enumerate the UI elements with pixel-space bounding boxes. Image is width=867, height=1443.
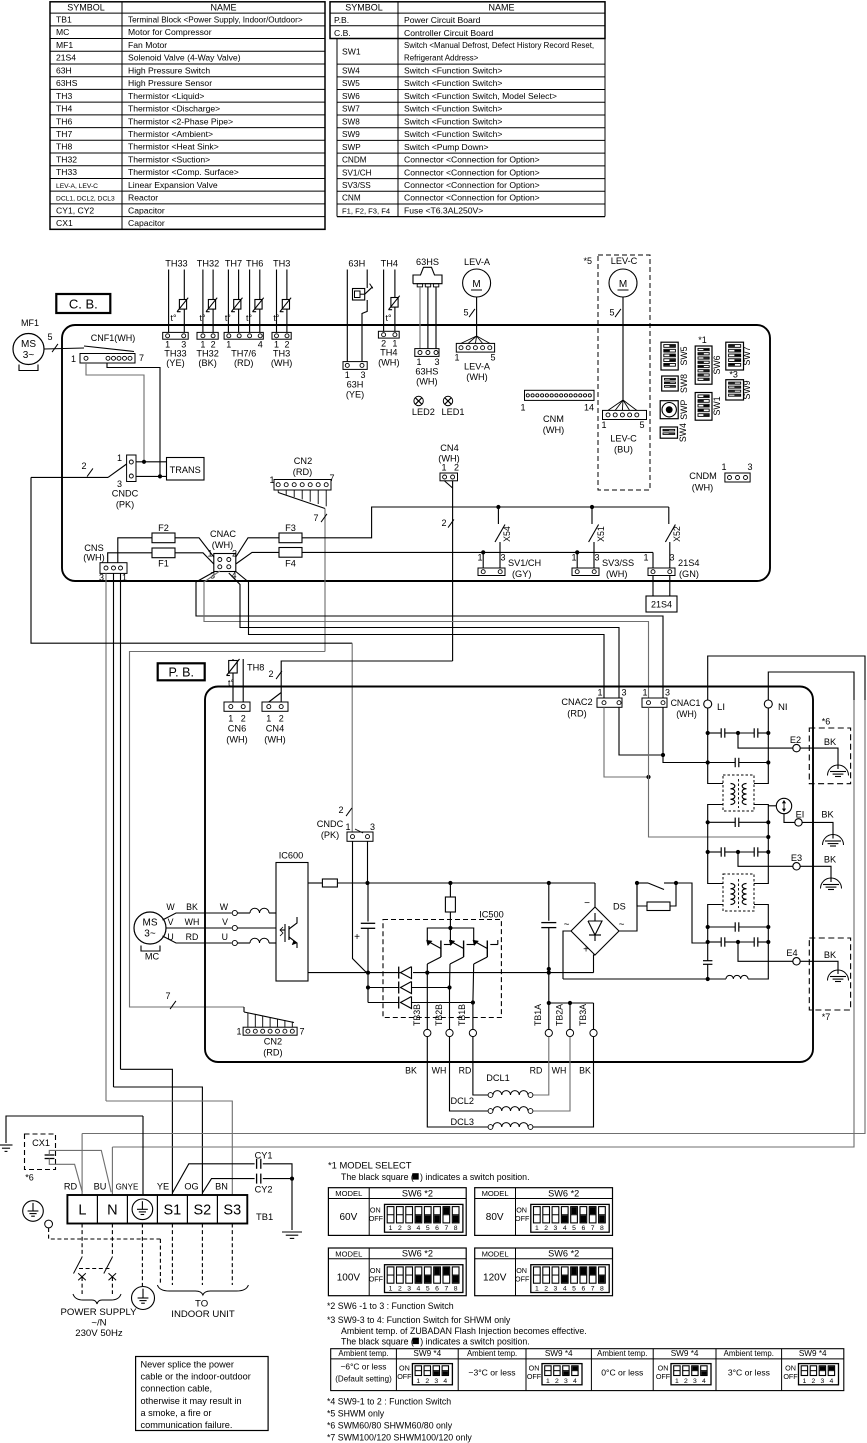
wire EI	[784, 814, 795, 823]
svg-text:Power Circuit Board: Power Circuit Board	[404, 15, 481, 25]
svg-text:3: 3	[554, 1286, 558, 1293]
svg-text:2: 2	[555, 1378, 559, 1385]
IGBT collector bus	[427, 928, 473, 941]
svg-text:Thermistor <Liquid>: Thermistor <Liquid>	[128, 91, 204, 101]
warning note box	[136, 1357, 269, 1431]
IGBT Q1	[427, 941, 441, 949]
E4 ground lead	[800, 961, 838, 974]
thermistor TH8	[232, 659, 234, 702]
svg-text:Ambient temp.: Ambient temp.	[597, 1349, 647, 1358]
model table 120V	[475, 1248, 613, 1296]
svg-text:(BU): (BU)	[614, 445, 633, 455]
svg-text:1: 1	[389, 1225, 393, 1232]
svg-text:(RD): (RD)	[567, 709, 586, 719]
wire F3 to relay rail	[302, 507, 669, 538]
relay contact X54	[497, 507, 499, 524]
N rail from TB1	[768, 672, 854, 700]
svg-text:F2: F2	[158, 523, 169, 533]
svg-text:DS: DS	[613, 902, 626, 912]
svg-text:Thermistor <Heat Sink>: Thermistor <Heat Sink>	[128, 142, 219, 152]
capacitor CX1	[45, 1154, 55, 1156]
svg-text:1: 1	[71, 354, 76, 364]
solenoid valve 21S4	[652, 576, 654, 597]
LED1	[443, 396, 452, 405]
svg-text:GNYE: GNYE	[116, 1183, 139, 1192]
svg-text:F3: F3	[285, 523, 296, 533]
svg-text:3°C or less: 3°C or less	[728, 1368, 770, 1378]
DC rail top	[308, 882, 322, 884]
brace power supply	[73, 1294, 121, 1304]
DIP switch SW4	[660, 427, 677, 438]
svg-text:Switch <Function Switch>: Switch <Function Switch>	[404, 66, 502, 76]
svg-text:1: 1	[643, 553, 648, 563]
svg-text:1: 1	[389, 1286, 393, 1293]
terminal NI	[764, 700, 772, 708]
wire CNAC1 pin3 to LI net	[663, 707, 708, 762]
svg-text:5: 5	[490, 353, 495, 363]
svg-text:X54: X54	[502, 526, 512, 542]
resistor parallel to relay	[637, 883, 647, 906]
svg-text:Ambient temp. of ZUBADAN Flash: Ambient temp. of ZUBADAN Flash Injection…	[341, 1326, 587, 1336]
cap row5	[708, 926, 736, 928]
svg-text:SW8: SW8	[679, 374, 689, 393]
svg-text:TH4: TH4	[381, 259, 398, 269]
svg-text:3: 3	[693, 1378, 697, 1385]
svg-text:OFF: OFF	[527, 1372, 542, 1381]
svg-text:TRANS: TRANS	[170, 465, 201, 475]
wire relay to E4 row	[676, 883, 708, 943]
svg-text:W: W	[220, 902, 229, 912]
wire CNDC pin1 to lower rail	[353, 841, 367, 972]
svg-text:SW7: SW7	[342, 105, 360, 114]
svg-text:CNAC: CNAC	[210, 529, 236, 539]
terminal E3	[793, 863, 800, 870]
svg-text:CN4: CN4	[266, 724, 284, 734]
wire LI row1-row2	[707, 733, 709, 763]
svg-text:−6°C or less: −6°C or less	[341, 1362, 387, 1372]
svg-text:4: 4	[830, 1378, 834, 1385]
svg-text:F4: F4	[285, 559, 296, 569]
connector LEV-C(BU)	[608, 400, 623, 410]
diode D2	[368, 987, 399, 989]
svg-text:*7: *7	[822, 1012, 831, 1022]
cap row6 right	[738, 941, 754, 943]
svg-text:(WH): (WH)	[692, 483, 713, 493]
svg-text:BK: BK	[824, 855, 837, 865]
svg-text:*3 SW9-3 to 4: Function Switc: *3 SW9-3 to 4: Function Switch for SHWM …	[327, 1315, 511, 1325]
brace to indoor unit	[157, 1285, 248, 1295]
svg-text:TH3: TH3	[273, 349, 290, 359]
svg-text:2: 2	[544, 1225, 548, 1232]
wire DS ac left	[563, 931, 571, 979]
svg-text:3: 3	[434, 1378, 438, 1385]
wire CN4 down (2 cond.)	[452, 481, 454, 661]
svg-text:SW4: SW4	[342, 67, 360, 76]
lower rail	[308, 972, 400, 974]
connector SV1/CH(GY)	[478, 568, 505, 576]
svg-text:cable or the indoor-outdoor: cable or the indoor-outdoor	[141, 1372, 251, 1382]
svg-text:t°: t°	[273, 313, 279, 323]
svg-text:1: 1	[721, 462, 726, 472]
wire DS dc plus	[594, 955, 596, 973]
svg-text:Connector <Connection for Opti: Connector <Connection for Option>	[404, 193, 540, 203]
svg-text:(RD): (RD)	[234, 358, 253, 368]
svg-text:3: 3	[117, 479, 122, 489]
svg-text:OFF: OFF	[369, 1214, 384, 1223]
svg-text:~: ~	[619, 920, 625, 931]
svg-text:2: 2	[441, 518, 446, 528]
svg-text:(WH): (WH)	[212, 540, 233, 550]
svg-text:S3: S3	[223, 1203, 241, 1219]
svg-text:60V: 60V	[340, 1212, 358, 1223]
wire CX1 to N	[49, 1150, 111, 1192]
tap to E2	[738, 733, 793, 748]
svg-text:4: 4	[417, 1286, 421, 1293]
wire CNAC pin3 to CNAC1 pin3	[196, 572, 663, 699]
svg-text:OG: OG	[184, 1182, 198, 1192]
svg-text:2: 2	[338, 805, 343, 815]
filter capacitor at bridge	[548, 883, 550, 921]
svg-text:CNM: CNM	[543, 414, 564, 424]
connector 21S4(GN)	[648, 568, 675, 576]
svg-text:E4: E4	[786, 948, 797, 958]
cap row2	[708, 762, 736, 764]
svg-text:TH33: TH33	[164, 349, 186, 359]
svg-text:LED2: LED2	[412, 407, 435, 417]
svg-text:a smoke, a fire or: a smoke, a fire or	[141, 1408, 212, 1418]
svg-text:CX1: CX1	[56, 218, 73, 228]
svg-text:2: 2	[398, 1225, 402, 1232]
svg-text:(WH): (WH)	[466, 372, 487, 382]
svg-text:Thermistor <Ambient>: Thermistor <Ambient>	[128, 129, 213, 139]
svg-text:4: 4	[258, 340, 263, 350]
wire CNAC1 pin1 to NI net	[649, 707, 769, 837]
wire CNS to F1 F2	[108, 553, 152, 563]
svg-text:SYMBOL: SYMBOL	[345, 2, 383, 12]
svg-text:The black square (: The black square (	[341, 1172, 414, 1182]
svg-text:5: 5	[639, 420, 644, 430]
svg-text:3: 3	[434, 357, 439, 367]
svg-text:Ambient temp.: Ambient temp.	[338, 1349, 388, 1358]
smoothing capacitor	[367, 883, 369, 922]
svg-text:3: 3	[747, 462, 752, 472]
svg-text:CN4: CN4	[440, 443, 458, 453]
svg-text:CN2: CN2	[264, 1037, 282, 1047]
wire TB1A from DCL1	[533, 1037, 549, 1095]
svg-text:1: 1	[441, 463, 446, 473]
DIP switch SW7	[726, 342, 744, 370]
connector CNM(WH)	[525, 390, 595, 400]
wire LI vertical	[707, 708, 709, 733]
svg-text:High Pressure Switch: High Pressure Switch	[128, 65, 210, 75]
svg-text:2: 2	[398, 1286, 402, 1293]
svg-text:High Pressure Sensor: High Pressure Sensor	[128, 78, 212, 88]
connector TH4(WH)	[378, 331, 399, 338]
connector 63HS(WH)	[415, 349, 439, 357]
resistor on DC rail	[322, 879, 337, 887]
svg-text:IC600: IC600	[279, 851, 304, 861]
svg-text:X52: X52	[672, 526, 682, 542]
svg-text:DCL3: DCL3	[451, 1117, 475, 1127]
svg-text:7: 7	[165, 991, 170, 1001]
svg-text:3: 3	[621, 688, 626, 698]
svg-text:7: 7	[591, 1225, 595, 1232]
svg-text:F1: F1	[158, 559, 169, 569]
svg-text:SV3/SS: SV3/SS	[342, 181, 371, 190]
svg-text:8: 8	[600, 1286, 604, 1293]
svg-text:3: 3	[665, 688, 670, 698]
svg-text:2: 2	[268, 669, 273, 679]
cap row1 left	[708, 732, 722, 734]
svg-text:MODEL: MODEL	[482, 1189, 509, 1198]
wire MF1 to CNF1	[44, 348, 84, 349]
connector CN6(WH) on P.B.	[224, 702, 250, 711]
symbol table (right)	[330, 2, 605, 39]
C.B. label	[56, 294, 110, 313]
earth circle below	[132, 1287, 155, 1310]
cap row4 left	[708, 851, 722, 853]
svg-text:Reactor: Reactor	[128, 193, 158, 203]
svg-text:connection cable,: connection cable,	[141, 1384, 213, 1394]
svg-text:E3: E3	[791, 853, 802, 863]
connector LEV-A(WH)	[461, 336, 477, 343]
svg-text:7: 7	[313, 513, 318, 523]
svg-text:4: 4	[417, 1225, 421, 1232]
svg-text:*5: *5	[583, 256, 592, 266]
svg-text:BK: BK	[824, 737, 837, 747]
svg-text:C.B.: C.B.	[334, 28, 351, 38]
svg-text:(YE): (YE)	[166, 358, 184, 368]
svg-text:BK: BK	[821, 810, 834, 820]
svg-text:CNM: CNM	[342, 194, 361, 203]
svg-text:P.B.: P.B.	[334, 15, 349, 25]
wire CNF1 pin2 to TRANS	[107, 363, 160, 476]
svg-text:2: 2	[425, 1378, 429, 1385]
svg-text:MS: MS	[21, 339, 36, 350]
svg-text:3: 3	[370, 822, 375, 832]
svg-text:6: 6	[581, 1286, 585, 1293]
capacitor CX1 dashed box *6	[25, 1134, 56, 1170]
svg-text:LED1: LED1	[442, 407, 465, 417]
EI earth	[823, 835, 844, 846]
svg-text:Switch <Pump Down>: Switch <Pump Down>	[404, 142, 489, 152]
svg-text:*6 SWM60/80 SHWM60/80 only: *6 SWM60/80 SHWM60/80 only	[327, 1421, 453, 1431]
diode bridge DS	[594, 883, 596, 907]
svg-text:1: 1	[642, 688, 647, 698]
svg-text:1: 1	[236, 1027, 241, 1037]
wire CNAC pin1 to CNAC1 pin1	[204, 571, 649, 698]
connector SV3/SS(WH)	[572, 568, 599, 576]
svg-text:(Default setting): (Default setting)	[335, 1375, 392, 1384]
model table 60V	[328, 1188, 466, 1236]
svg-text:+: +	[354, 932, 360, 943]
svg-text:80V: 80V	[486, 1212, 504, 1223]
wire TB1B to DCL1	[473, 1037, 488, 1095]
svg-text:RD: RD	[530, 1066, 543, 1076]
relay contact on P.B.	[648, 883, 664, 890]
wire TB3B to DCL3	[427, 1037, 488, 1127]
svg-text:2: 2	[241, 714, 246, 724]
wire CNS to S-terminals	[120, 573, 122, 1069]
svg-text:7: 7	[444, 1286, 448, 1293]
svg-text:SW6 *2: SW6 *2	[402, 1249, 433, 1259]
svg-text:TB3B: TB3B	[412, 1004, 422, 1026]
svg-text:OFF: OFF	[369, 1275, 384, 1284]
svg-text:SW6: SW6	[712, 355, 722, 374]
svg-text:S2: S2	[194, 1203, 212, 1219]
svg-text:−3°C or less: −3°C or less	[468, 1368, 515, 1378]
svg-text:V: V	[168, 917, 174, 927]
svg-text:3: 3	[360, 370, 365, 380]
svg-text:BK: BK	[824, 950, 837, 960]
svg-text:1: 1	[477, 553, 482, 563]
LEV-C dashed enclosure *5	[598, 255, 650, 490]
svg-text:1: 1	[535, 1225, 539, 1232]
svg-text:) indicates a switch position.: ) indicates a switch position.	[420, 1172, 530, 1182]
svg-text:*6: *6	[822, 717, 831, 727]
wire CNDC to left (2 cond.)	[31, 476, 108, 478]
svg-text:2: 2	[279, 714, 284, 724]
svg-text:BU: BU	[94, 1182, 107, 1192]
svg-text:Connector <Connection for Opti: Connector <Connection for Option>	[404, 155, 540, 165]
svg-text:Thermistor <Discharge>: Thermistor <Discharge>	[128, 104, 220, 114]
svg-text:1: 1	[117, 453, 122, 463]
svg-text:Fuse <T6.3AL250V>: Fuse <T6.3AL250V>	[404, 205, 483, 215]
relay contact X51	[591, 507, 593, 524]
svg-text:TH7: TH7	[56, 129, 72, 139]
svg-text:SW6: SW6	[342, 92, 360, 101]
resistor above IC500	[449, 883, 451, 897]
svg-text:TB2B: TB2B	[434, 1004, 444, 1026]
svg-text:MC: MC	[56, 27, 69, 37]
svg-text:(YE): (YE)	[346, 390, 364, 400]
svg-text:Connector <Connection for Opti: Connector <Connection for Option>	[404, 167, 540, 177]
dashed box *7	[809, 938, 850, 1010]
earth far-left	[6, 1116, 143, 1143]
svg-text:1: 1	[228, 714, 233, 724]
svg-text:7: 7	[329, 473, 334, 483]
svg-text:3: 3	[554, 1225, 558, 1232]
svg-text:Switch <Manual Defrost, Defect: Switch <Manual Defrost, Defect History R…	[404, 41, 594, 50]
earth terminal in TB1	[132, 1199, 153, 1220]
choke L2	[723, 874, 754, 911]
connector TH33(YE)	[163, 332, 189, 339]
svg-text:TB1B: TB1B	[457, 1004, 467, 1026]
svg-text:TH6: TH6	[56, 116, 72, 126]
svg-text:TH8: TH8	[56, 142, 72, 152]
svg-text:(RD): (RD)	[293, 467, 312, 477]
connector TH7/6(RD)	[224, 332, 263, 339]
svg-text:2: 2	[812, 1378, 816, 1385]
svg-text:(WH): (WH)	[83, 553, 104, 563]
svg-text:63H: 63H	[348, 259, 365, 269]
svg-text:(WH): (WH)	[226, 735, 247, 745]
svg-text:(GN): (GN)	[679, 569, 699, 579]
svg-text:RD: RD	[186, 932, 199, 942]
svg-text:120V: 120V	[483, 1273, 507, 1284]
svg-text:−: −	[584, 898, 590, 909]
wire CNAC2 pin1 join	[604, 707, 649, 777]
DIP switch SW1	[695, 393, 712, 421]
svg-text:LEV-A: LEV-A	[464, 257, 491, 267]
svg-text:Never splice the power: Never splice the power	[141, 1360, 234, 1370]
svg-text:TH8: TH8	[247, 663, 264, 673]
svg-text:V: V	[222, 917, 228, 927]
svg-text:8: 8	[600, 1225, 604, 1232]
wire TB3A from DCL3	[533, 1037, 594, 1127]
svg-text:Switch <Function Switch>: Switch <Function Switch>	[404, 116, 502, 126]
svg-text:63HS: 63HS	[415, 367, 438, 377]
svg-text:5: 5	[609, 308, 614, 318]
svg-text:1: 1	[122, 573, 127, 583]
svg-text:CNF1(WH): CNF1(WH)	[91, 333, 136, 343]
svg-text:1: 1	[266, 714, 271, 724]
svg-text:*1 MODEL SELECT: *1 MODEL SELECT	[328, 1160, 412, 1171]
wire CN2 bundle	[278, 493, 325, 509]
svg-text:21S4: 21S4	[651, 600, 672, 610]
svg-text:BK: BK	[579, 1066, 591, 1076]
svg-text:NI: NI	[778, 702, 788, 713]
fuse F1	[152, 548, 175, 558]
svg-text:4: 4	[563, 1286, 567, 1293]
svg-text:(WH): (WH)	[264, 735, 285, 745]
svg-text:SYMBOL: SYMBOL	[67, 2, 105, 12]
compressor motor MC	[134, 912, 166, 944]
connector TH3(WH)	[272, 332, 291, 339]
svg-text:TH6: TH6	[246, 259, 263, 269]
svg-text:(WH): (WH)	[543, 425, 564, 435]
svg-text:3: 3	[500, 553, 505, 563]
svg-text:3~: 3~	[144, 929, 156, 940]
svg-text:SW6 *2: SW6 *2	[402, 1188, 433, 1198]
svg-text:TO: TO	[195, 1299, 208, 1310]
svg-text:t°: t°	[228, 678, 234, 688]
svg-text:Capacitor: Capacitor	[128, 218, 165, 228]
svg-text:TH3: TH3	[273, 259, 290, 269]
P.B. label	[158, 663, 205, 680]
protective earth symbol left of TB1	[23, 1201, 44, 1222]
wire DS ac right to relay	[619, 883, 637, 931]
svg-text:SWP: SWP	[679, 400, 689, 420]
svg-text:3~: 3~	[23, 350, 35, 361]
E3 ground lead	[800, 866, 831, 882]
svg-text:POWER SUPPLY: POWER SUPPLY	[60, 1307, 137, 1318]
E3 earth	[821, 878, 842, 889]
svg-text:14: 14	[584, 403, 594, 413]
svg-text:W: W	[166, 902, 175, 912]
svg-text:2: 2	[454, 463, 459, 473]
svg-text:CN6: CN6	[228, 724, 246, 734]
svg-text:Solenoid Valve (4-Way Valve): Solenoid Valve (4-Way Valve)	[128, 53, 241, 63]
svg-text:1: 1	[345, 822, 350, 832]
symbol table (left)	[50, 2, 325, 230]
svg-text:1: 1	[454, 353, 459, 363]
svg-text:U: U	[222, 932, 228, 942]
svg-text:Ambient temp.: Ambient temp.	[724, 1349, 774, 1358]
dashed drops from terminals	[81, 1224, 83, 1258]
svg-text:Refrigerant Address>: Refrigerant Address>	[404, 54, 479, 63]
wire L to rail	[81, 1134, 83, 1196]
breaker N	[104, 1257, 113, 1274]
svg-text:(PK): (PK)	[116, 500, 134, 510]
svg-text:OFF: OFF	[515, 1214, 530, 1223]
svg-text:SV1/CH: SV1/CH	[508, 558, 541, 568]
svg-text:RD: RD	[64, 1182, 78, 1192]
wire CNAC pin4 to F4	[236, 552, 279, 564]
svg-text:100V: 100V	[337, 1273, 361, 1284]
connector CN4(WH) on P.B.	[262, 702, 288, 711]
svg-text:63HS: 63HS	[56, 78, 78, 88]
